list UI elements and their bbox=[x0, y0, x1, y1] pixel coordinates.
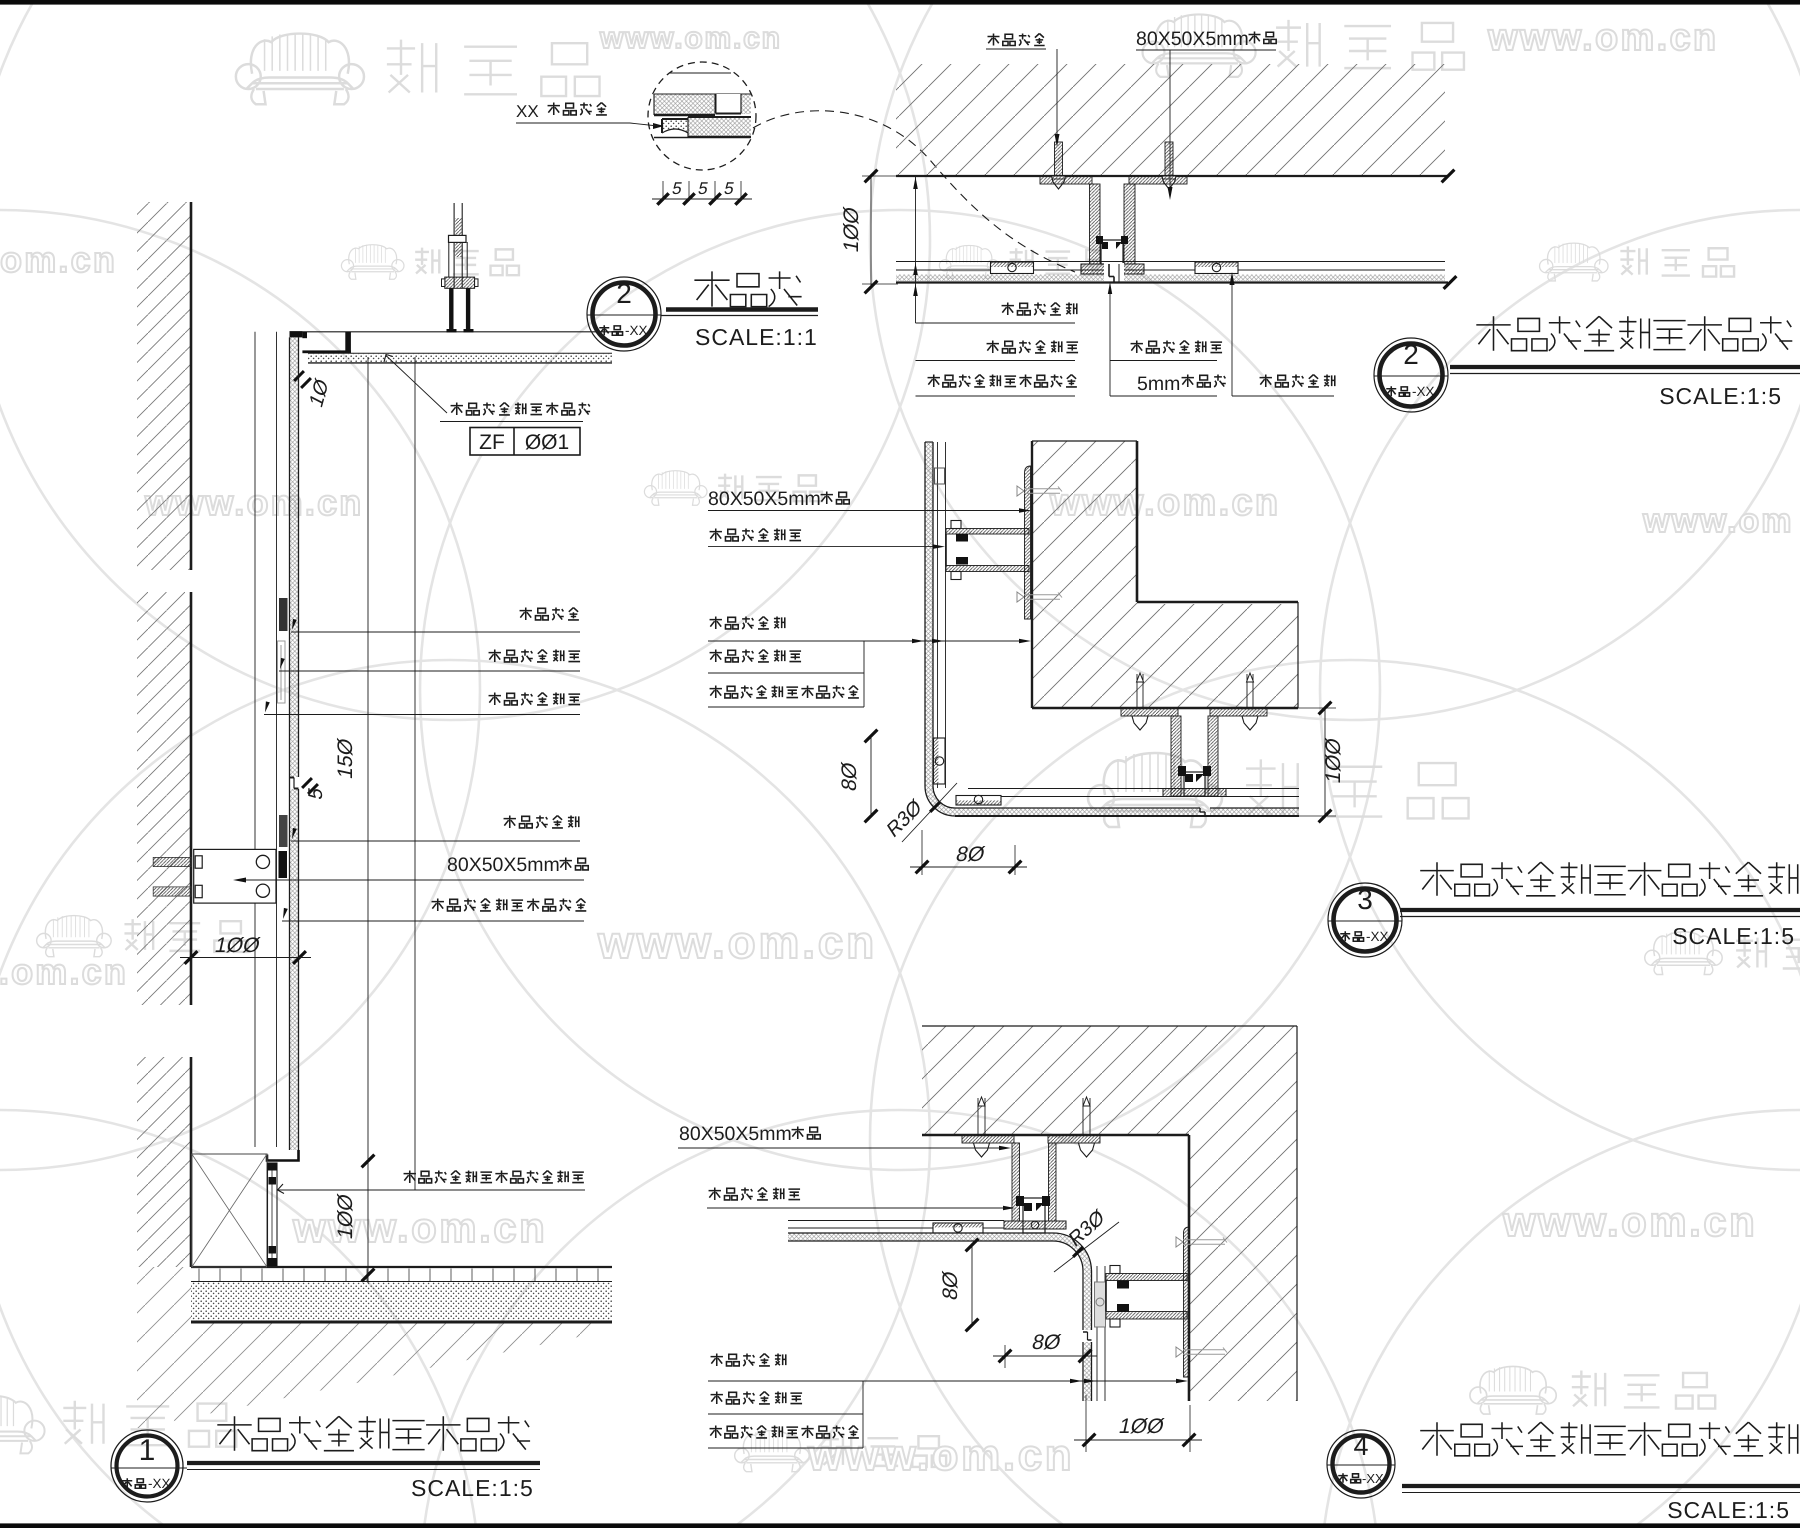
svg-text:om.cn: om.cn bbox=[0, 239, 117, 280]
svg-text:www.om.cn: www.om.cn bbox=[599, 22, 782, 55]
svg-text:8Ø: 8Ø bbox=[838, 760, 861, 793]
svg-text:1ØØ: 1ØØ bbox=[213, 934, 262, 957]
svg-text:SCALE:1:5: SCALE:1:5 bbox=[1659, 383, 1782, 409]
svg-text:-XX: -XX bbox=[1362, 1471, 1384, 1486]
svg-text:www.om: www.om bbox=[1642, 502, 1794, 540]
svg-text:XX: XX bbox=[516, 102, 539, 121]
svg-text:80X50X5mm: 80X50X5mm bbox=[447, 854, 560, 876]
svg-text:8Ø: 8Ø bbox=[954, 843, 987, 866]
svg-text:-XX: -XX bbox=[148, 1476, 171, 1491]
svg-text:2: 2 bbox=[616, 278, 632, 309]
svg-text:1ØØ: 1ØØ bbox=[840, 205, 863, 254]
svg-text:80X50X5mm: 80X50X5mm bbox=[1136, 28, 1249, 50]
svg-text:www.om.cn: www.om.cn bbox=[807, 1431, 1074, 1480]
svg-text:SCALE:1:5: SCALE:1:5 bbox=[1672, 923, 1795, 949]
svg-text:SCALE:1:5: SCALE:1:5 bbox=[411, 1475, 534, 1501]
svg-text:2: 2 bbox=[1403, 339, 1419, 370]
svg-text:80X50X5mm: 80X50X5mm bbox=[679, 1123, 792, 1145]
svg-text:www.om.cn: www.om.cn bbox=[1487, 17, 1718, 59]
svg-text:1ØØ: 1ØØ bbox=[1322, 736, 1345, 785]
svg-text:ØØ1: ØØ1 bbox=[525, 431, 569, 454]
svg-text:ZF: ZF bbox=[479, 431, 505, 454]
svg-text:-XX: -XX bbox=[625, 323, 648, 338]
svg-text:8Ø: 8Ø bbox=[1030, 1331, 1063, 1354]
svg-text:www.om.cn: www.om.cn bbox=[597, 916, 877, 968]
svg-text:15Ø: 15Ø bbox=[334, 736, 357, 781]
svg-text:5mm: 5mm bbox=[1137, 373, 1180, 395]
svg-text:1ØØ: 1ØØ bbox=[1117, 1415, 1166, 1438]
svg-text:www.om.cn: www.om.cn bbox=[292, 1204, 547, 1251]
svg-text:SCALE:1:1: SCALE:1:1 bbox=[695, 324, 818, 350]
svg-text:4: 4 bbox=[1353, 1431, 1368, 1461]
svg-text:3: 3 bbox=[1357, 884, 1373, 915]
svg-text:w.om.cn: w.om.cn bbox=[0, 951, 128, 992]
svg-text:80X50X5mm: 80X50X5mm bbox=[708, 488, 821, 510]
svg-text:1: 1 bbox=[139, 1434, 156, 1467]
svg-text:-XX: -XX bbox=[1366, 929, 1389, 944]
svg-text:1ØØ: 1ØØ bbox=[334, 1192, 357, 1241]
svg-text:SCALE:1:5: SCALE:1:5 bbox=[1667, 1497, 1790, 1523]
svg-text:8Ø: 8Ø bbox=[939, 1269, 962, 1302]
svg-text:www.om.cn: www.om.cn bbox=[1502, 1198, 1757, 1245]
svg-text:-XX: -XX bbox=[1412, 384, 1435, 399]
